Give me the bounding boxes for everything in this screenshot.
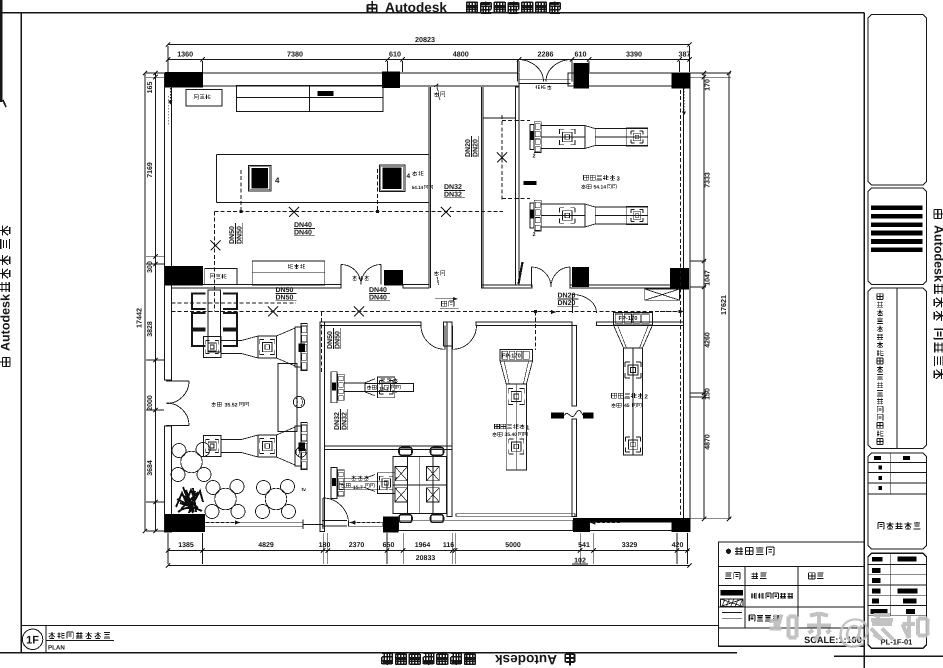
wall bottom black segment [590, 518, 671, 530]
morgue machine [331, 372, 397, 403]
door threshold bottom entrance [303, 520, 323, 530]
prep machine room1 [500, 350, 533, 470]
titleblock box 1 [868, 15, 927, 186]
label DN32 vert morgue2 [334, 409, 348, 430]
round table cluster 2 [205, 480, 245, 519]
rest area label [211, 402, 248, 409]
svg-text:Autodesk: Autodesk [385, 0, 447, 15]
wall bottom thin left [171, 522, 303, 526]
column C2 [382, 72, 400, 89]
pipe main upper [215, 211, 504, 213]
label DN40 under midwall [369, 287, 390, 301]
corridor bottom wall seg2 [476, 322, 572, 326]
svg-text:2: 2 [532, 232, 535, 238]
corridor door left leaf [421, 325, 445, 349]
svg-text:3390: 3390 [626, 50, 642, 59]
svg-text:150: 150 [705, 388, 712, 400]
svg-text:4829: 4829 [258, 542, 274, 549]
vent box with X [645, 289, 680, 300]
valve left riser [211, 241, 221, 251]
right vertical watermark text [932, 209, 943, 379]
tv label [302, 487, 307, 493]
svg-text:170: 170 [705, 79, 712, 91]
svg-text:Autodesk: Autodesk [932, 225, 943, 282]
column C11 [573, 518, 590, 532]
svg-text:DN20: DN20 [558, 293, 576, 300]
svg-text:DN50: DN50 [229, 226, 236, 244]
office desk group [393, 448, 447, 523]
corridor bottom wall seg3 [597, 322, 684, 326]
svg-text:DN40: DN40 [294, 229, 312, 236]
office machine [331, 468, 397, 499]
svg-text:Autodesk: Autodesk [0, 294, 13, 351]
svg-text:35.40: 35.40 [505, 432, 518, 438]
svg-text:4260: 4260 [705, 332, 712, 348]
svg-text:15.7: 15.7 [353, 485, 363, 491]
room3 area [581, 184, 616, 190]
title strip border line [863, 13, 865, 668]
column C6 [384, 270, 403, 286]
svg-text:610: 610 [575, 50, 587, 59]
pipe mid horizontal [172, 311, 684, 313]
round table cluster 3 [256, 480, 296, 519]
corridor inner door [573, 295, 597, 314]
svg-text:4: 4 [407, 173, 411, 180]
svg-text:387: 387 [679, 50, 691, 59]
waiting rack table [208, 290, 221, 352]
svg-text:DN20: DN20 [465, 139, 472, 157]
svg-text:FP-170: FP-170 [502, 352, 521, 359]
scale note [804, 635, 862, 645]
ramp wall right [482, 87, 484, 288]
svg-text:PLAN: PLAN [48, 645, 65, 652]
wall bottom upper pair [456, 514, 575, 516]
title-bar divider [45, 626, 47, 653]
dim line bottom segments [166, 542, 690, 553]
room1 area [492, 432, 527, 438]
dim extension lines right [691, 73, 732, 519]
cremator machine room3 lower [530, 200, 648, 238]
svg-text:7333: 7333 [705, 172, 712, 188]
office door threshold [322, 521, 347, 527]
pipe morgue drop [321, 312, 323, 372]
junction mid [534, 310, 682, 313]
label DN50 under midwall [276, 287, 297, 301]
wall mid-A left [171, 285, 341, 288]
wall legend table [719, 542, 865, 646]
body-prep machine B (rest area) [204, 423, 308, 470]
svg-text:54.14: 54.14 [412, 185, 424, 190]
pipe room3 riser [502, 115, 530, 200]
column C7 [572, 267, 589, 287]
room1-2 divider lower [572, 419, 577, 517]
svg-text:4: 4 [275, 176, 280, 185]
left vertical watermark text [0, 226, 13, 367]
console desk 1 [186, 90, 222, 107]
room3 name [584, 175, 621, 183]
bottom-right frame line [834, 655, 943, 657]
morgue name [380, 378, 397, 383]
svg-text:DN50: DN50 [327, 331, 334, 349]
svg-text:DN20: DN20 [472, 139, 479, 157]
waiting rack seats [192, 294, 237, 347]
sheet title text [47, 632, 115, 641]
svg-text:420: 420 [672, 542, 684, 549]
zhihu watermark [770, 613, 928, 651]
wall bottom thin mid [349, 522, 384, 526]
svg-text:@: @ [837, 613, 872, 651]
room1 name [494, 424, 530, 432]
vestibule threshold [483, 117, 515, 119]
svg-text:15.1: 15.1 [379, 387, 389, 393]
wall left lower [165, 426, 172, 532]
pipe right wall riser [680, 90, 682, 515]
round table cluster 1 [171, 443, 211, 482]
svg-text:1964: 1964 [415, 542, 431, 549]
wall-follow dotted arrow left [169, 88, 172, 104]
pipe left wall segment [167, 96, 169, 126]
stage machine 4T-2 [379, 165, 432, 192]
cremator machine room3 upper [530, 122, 648, 160]
ramp wall left [429, 87, 431, 288]
column C1 [165, 72, 203, 88]
svg-text:DN20: DN20 [558, 300, 576, 307]
double door top (entrance) [518, 60, 573, 84]
bottom frame line [0, 652, 737, 654]
section mark [519, 262, 523, 284]
fire door label [535, 85, 551, 90]
svg-text:1360: 1360 [177, 50, 193, 59]
svg-text:DN50: DN50 [276, 287, 294, 294]
top counter [237, 86, 384, 112]
svg-text:650: 650 [383, 542, 395, 549]
dim line right outer 17621 [719, 71, 731, 521]
svg-text:DN32: DN32 [334, 412, 341, 430]
label DN50 vert left [229, 223, 243, 244]
label DN40 under pipe [294, 222, 315, 236]
valve on upper pipe 1 [289, 207, 299, 217]
svg-text:165: 165 [147, 82, 154, 94]
reception desk [252, 261, 325, 285]
dim extension lines bottom [168, 533, 688, 564]
office name [351, 475, 368, 480]
valve on upper pipe 2 [441, 207, 451, 217]
svg-text:DN32: DN32 [341, 412, 348, 430]
svg-text:300: 300 [147, 261, 154, 273]
wall mid-A right2 [570, 285, 683, 288]
titleblock box 4 (sheet name) [868, 453, 927, 549]
pipe branch y303 [172, 302, 297, 304]
column C9 [165, 514, 205, 532]
console desk 2 [205, 269, 238, 285]
wall mid-A stub [403, 285, 429, 288]
svg-text:Autodesk: Autodesk [495, 652, 557, 667]
svg-text:54.14: 54.14 [594, 185, 607, 191]
svg-text:DN50: DN50 [236, 226, 243, 244]
pipe drop 4T-2 [376, 169, 379, 213]
pipe left riser [214, 212, 216, 312]
T-stage platform [217, 155, 430, 203]
label DN20 vert near room3 [465, 136, 479, 157]
svg-text:DN40: DN40 [369, 287, 387, 294]
dim extension lines left [146, 73, 164, 531]
svg-text:3684: 3684 [147, 460, 154, 476]
room1-2 divider upper [572, 325, 577, 406]
1F sheet circle [22, 629, 42, 649]
titleblock box 3 (project name) [868, 288, 927, 449]
dim extension lines top [168, 46, 690, 72]
column C12 [672, 518, 691, 532]
svg-text:20833: 20833 [416, 555, 436, 562]
dim line bottom total 20833 [166, 555, 692, 568]
dim line total top 20823 [166, 35, 692, 47]
svg-text:4800: 4800 [453, 50, 469, 59]
svg-text:17621: 17621 [719, 295, 728, 315]
svg-text:2000: 2000 [147, 395, 154, 411]
corridor label [435, 297, 459, 308]
T-stage room label [352, 276, 369, 281]
top watermark text (Autodesk edu) [367, 0, 560, 15]
svg-text:DN32: DN32 [444, 191, 462, 198]
wall-follow dotted arrow right [682, 88, 685, 115]
office door [323, 498, 349, 524]
sheet subtitle PLAN [48, 645, 65, 652]
svg-text:3329: 3329 [622, 542, 638, 549]
wall mid-A right1 [482, 285, 533, 288]
wall top-left segment [167, 73, 520, 86]
svg-text:5000: 5000 [505, 542, 521, 549]
partition panel [278, 364, 297, 432]
svg-text:7169: 7169 [147, 162, 154, 178]
handrail label bottom [434, 271, 445, 285]
dim line top segments [166, 50, 692, 62]
screen left edge line [1, 0, 6, 107]
dim line left outer 17442 [135, 71, 148, 533]
dim line right segments [702, 71, 712, 521]
svg-text:1047: 1047 [705, 270, 712, 286]
svg-text:35.52: 35.52 [225, 403, 238, 409]
svg-text:610: 610 [389, 50, 401, 59]
room3 left wall [515, 87, 519, 285]
corridor bottom wall seg1 [320, 322, 421, 326]
column C3 [574, 63, 590, 88]
column C10 [383, 517, 399, 533]
bottom flipped watermark text [382, 652, 575, 667]
pipe right stub [660, 311, 681, 313]
svg-text:tv: tv [302, 487, 307, 493]
svg-text:DN32: DN32 [444, 184, 462, 191]
morgue area [365, 384, 414, 393]
morgue room right wall [447, 322, 452, 517]
body-prep machine A (rest area) [204, 324, 308, 371]
room2 name [612, 393, 649, 401]
titleblock box 2 (logo bars) [868, 188, 927, 285]
small black mark room3 wall [524, 181, 537, 185]
svg-text:2: 2 [532, 154, 535, 160]
svg-text:7380: 7380 [287, 50, 303, 59]
svg-text:3828: 3828 [147, 321, 154, 337]
svg-text:DN40: DN40 [369, 294, 387, 301]
svg-text:541: 541 [578, 542, 590, 549]
label DN20 corridor [558, 293, 579, 307]
svg-text:2286: 2286 [538, 50, 554, 59]
office area [339, 482, 387, 491]
svg-text:1F: 1F [26, 635, 39, 647]
svg-text:PL-1F-01: PL-1F-01 [881, 638, 913, 647]
prep machine room2 [613, 313, 652, 456]
column C5 [165, 266, 203, 286]
label DN50 vert morgue [327, 328, 341, 349]
dim text 102 [572, 558, 588, 565]
svg-text:DN50: DN50 [334, 331, 341, 349]
svg-text:FP-170: FP-170 [619, 315, 638, 322]
svg-text:2370: 2370 [349, 542, 365, 549]
wall bottom band right [399, 520, 573, 530]
corridor door right leaf [453, 325, 477, 349]
wall left upper [165, 73, 172, 380]
svg-text:1385: 1385 [178, 542, 194, 549]
corridor door stub [444, 322, 453, 346]
titleblock box 5 (drawing number) [868, 553, 927, 648]
drain symbol 1 [293, 396, 304, 407]
svg-text:180: 180 [319, 542, 331, 549]
svg-text:17442: 17442 [135, 308, 144, 328]
column C4 [672, 73, 690, 88]
wall top-right segment [568, 73, 690, 86]
office top wall [325, 446, 453, 450]
handrail label top [434, 84, 445, 100]
left frame border [20, 13, 22, 653]
svg-text:20823: 20823 [415, 35, 435, 44]
stage machine 4T-1 [248, 165, 280, 190]
dim line left segments [147, 71, 158, 533]
pipe drop 4T-1 [239, 170, 242, 213]
plant symbol [176, 487, 203, 513]
double door room3 [532, 267, 571, 287]
guide arrow bottom 2 [350, 521, 382, 525]
room1-2 curtain door [551, 410, 594, 418]
double door left wall [166, 381, 189, 426]
svg-text:DN40: DN40 [294, 222, 312, 229]
column C8 [670, 268, 689, 289]
pipe drop room1 [535, 312, 537, 351]
top border line [0, 12, 864, 14]
valve mid 2 [354, 307, 364, 317]
bottom title-bar top line [21, 625, 718, 627]
guide arrow bottom 1 [206, 521, 240, 525]
room2 area [611, 403, 641, 409]
guide arrow bottom 3 [590, 521, 622, 525]
svg-text:4870: 4870 [705, 434, 712, 450]
label DN32 near stage [444, 184, 465, 198]
pipe arrow mid [551, 310, 556, 314]
valve mid 1 [268, 307, 278, 317]
wall right [683, 73, 690, 532]
lower-left room right wall [320, 322, 325, 532]
svg-text:45: 45 [624, 403, 630, 409]
svg-text:DN50: DN50 [276, 294, 294, 301]
double door T-stage room [341, 265, 381, 285]
valve room3 [497, 153, 507, 163]
drain symbol 2 [296, 447, 306, 457]
